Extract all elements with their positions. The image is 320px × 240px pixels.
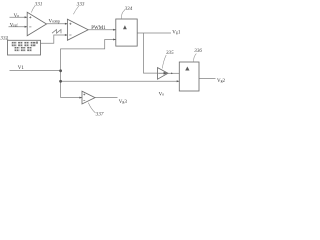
symbol in box336 bbox=[185, 67, 189, 71]
arrow into op-amp Vref bbox=[25, 26, 28, 28]
triangle337 minus bbox=[83, 100, 85, 102]
wire lower Vo line to box336 bbox=[61, 80, 180, 82]
chinese text blobs in box332: 锯齿波产 / 生模块 bbox=[12, 42, 38, 52]
wire to triangle337 bbox=[61, 97, 82, 99]
arrow into comparator minus bbox=[65, 34, 68, 36]
leader 335 bbox=[162, 55, 166, 68]
wire vertical bus bbox=[60, 49, 62, 98]
wire top path to box334 second input bbox=[60, 40, 116, 49]
plus minus marks bbox=[29, 16, 85, 100]
arrow on wire into box336 input1 bbox=[171, 73, 173, 75]
svg-text:V1: V1 bbox=[18, 66, 25, 71]
arrow into op-amp Vo bbox=[25, 16, 28, 18]
svg-text:337: 337 bbox=[96, 112, 104, 118]
leader lines for reference numbers bbox=[6, 6, 196, 113]
reference number labels bbox=[0, 1, 202, 117]
svg-text:336: 336 bbox=[194, 48, 202, 54]
wire V1 input bbox=[10, 70, 61, 72]
svg-text:333: 333 bbox=[77, 1, 85, 7]
wire triangle335 to box336 bbox=[168, 72, 179, 74]
op-amp minus bbox=[29, 26, 31, 28]
comparator plus bbox=[69, 23, 71, 25]
leader 337 bbox=[88, 103, 95, 113]
box 334 driver bbox=[116, 19, 137, 46]
svg-text:332: 332 bbox=[0, 36, 8, 42]
net name labels bbox=[10, 14, 226, 105]
wire Vg1 output bbox=[137, 32, 171, 34]
leader 332 bbox=[6, 38, 8, 41]
white stroke gaps in chinese blobs bbox=[12, 42, 36, 51]
box 332 sawtooth generator bbox=[8, 40, 41, 55]
wire Vg3 output bbox=[95, 97, 118, 99]
wire Vo input bbox=[10, 16, 28, 18]
wire Vref input bbox=[9, 26, 28, 28]
sawtooth waveform symbol bbox=[52, 30, 61, 34]
leader 333 bbox=[73, 6, 78, 14]
arrow into comparator plus bbox=[65, 23, 68, 25]
triangle 335 buffer bbox=[158, 68, 169, 80]
arrow into box334 input1 bbox=[113, 29, 116, 31]
leader 334 bbox=[121, 10, 125, 18]
arrow into box336 input2 bbox=[177, 80, 180, 82]
op-amp U331 triangle bbox=[27, 12, 46, 36]
wire branch from Vg1 to triangle 335 bbox=[144, 33, 158, 73]
input arrowheads bbox=[25, 16, 180, 98]
comparator U333 triangle bbox=[67, 19, 88, 40]
triangle 337 buffer bbox=[82, 91, 95, 104]
triangle337 plus bbox=[83, 93, 85, 95]
leader 336 bbox=[194, 54, 197, 63]
arrow inside triangle335 bbox=[158, 72, 166, 74]
svg-text:334: 334 bbox=[125, 6, 133, 12]
wire Vg2 output bbox=[199, 78, 216, 80]
svg-text:PWM1: PWM1 bbox=[91, 26, 106, 31]
wire sawtooth net from box332 to comparator bbox=[41, 35, 68, 43]
comparator minus bbox=[69, 34, 71, 36]
junction dot lower bbox=[59, 80, 62, 83]
arrow into box334 input2 bbox=[113, 39, 116, 41]
leader 331 bbox=[31, 6, 35, 13]
wire Vcomp net bbox=[46, 23, 67, 25]
junction dot upper bbox=[59, 69, 62, 72]
svg-text:335: 335 bbox=[166, 50, 174, 56]
arrow into triangle337 bbox=[79, 97, 82, 99]
svg-text:331: 331 bbox=[35, 2, 43, 8]
box 336 driver bbox=[179, 62, 199, 91]
symbol in box334 bbox=[123, 25, 127, 29]
op-amp plus bbox=[29, 16, 31, 18]
wire PWM1 net bbox=[88, 29, 116, 31]
